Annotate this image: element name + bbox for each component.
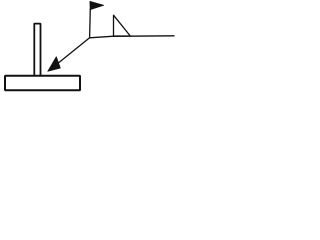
vertical plate of T-joint xyxy=(34,24,40,76)
flag (filled pennant) xyxy=(90,1,104,9)
reference line xyxy=(90,36,175,38)
flag pole (field weld) xyxy=(89,9,92,38)
arrowhead xyxy=(48,57,61,72)
fillet weld triangle xyxy=(114,15,131,36)
arrow line (leader) xyxy=(56,38,90,65)
base plate (horizontal plate of T-joint) xyxy=(5,76,80,91)
